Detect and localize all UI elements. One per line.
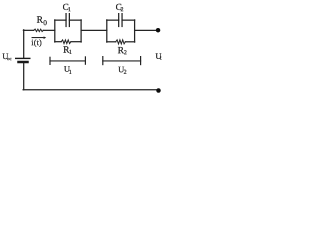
svg-text:1: 1 <box>68 7 71 13</box>
voltage source U_oc short thick plate <box>19 61 28 64</box>
voltage bracket U1 line <box>50 60 85 62</box>
wire network1 bottom branch left <box>55 41 61 43</box>
wire between network1 and network2 <box>81 29 107 31</box>
wire network1 top branch right <box>69 19 81 21</box>
node: negative terminal dot <box>156 88 161 93</box>
voltage source U_oc long plate <box>16 57 30 59</box>
wire top-left horizontal <box>23 29 33 31</box>
wire bottom <box>23 89 156 91</box>
svg-text:0: 0 <box>43 18 47 27</box>
wire R0 to network 1 <box>43 29 55 31</box>
current arrow i(t) head <box>44 36 47 39</box>
wire left vertical from source to bottom wire <box>23 63 25 90</box>
wire network2 to positive terminal <box>135 29 157 31</box>
voltage bracket U2 right bar <box>140 57 142 65</box>
svg-text:i(t): i(t) <box>31 38 42 47</box>
svg-text:2: 2 <box>124 70 127 76</box>
capacitor C2 right plate <box>121 14 123 27</box>
node: network 2 left bar <box>106 20 108 42</box>
svg-text:1: 1 <box>69 50 72 56</box>
svg-text:2: 2 <box>124 50 127 56</box>
wire network2 top branch left <box>107 19 119 21</box>
wire left vertical from top wire to source <box>23 30 25 58</box>
svg-text:2: 2 <box>121 7 124 13</box>
resistor R0 zigzag <box>34 29 44 32</box>
node: positive terminal dot <box>156 28 161 33</box>
voltage bracket U1 right bar <box>84 57 86 64</box>
svg-text:1: 1 <box>69 70 72 76</box>
voltage bracket U2 line <box>103 60 141 62</box>
capacitor C1 left plate <box>65 14 67 27</box>
svg-text:oc: oc <box>7 57 11 62</box>
wire network2 bottom branch right <box>125 41 134 43</box>
capacitor C2 left plate <box>118 14 120 27</box>
wire network2 bottom branch left <box>107 41 116 43</box>
node: network 2 right bar <box>134 20 136 42</box>
current arrow i(t) shaft <box>32 37 43 39</box>
resistor R1 zigzag <box>61 40 71 44</box>
wire network1 top branch left <box>55 19 66 21</box>
node: network 1 right bar <box>80 20 82 42</box>
voltage bracket U1 left bar <box>49 57 51 64</box>
voltage bracket U2 left bar <box>102 57 104 65</box>
wire network1 bottom branch right <box>71 41 81 43</box>
wire network2 top branch right <box>122 19 135 21</box>
node: network 1 left bar <box>54 20 56 42</box>
capacitor C1 right plate <box>68 14 70 27</box>
resistor R2 zigzag <box>116 40 126 44</box>
